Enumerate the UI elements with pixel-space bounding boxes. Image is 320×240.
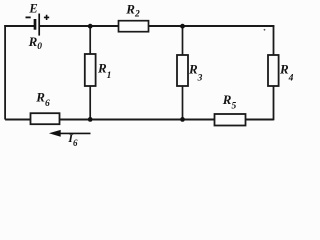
- wire top rail left segment: [4, 25, 34, 27]
- battery plus sign: [44, 15, 49, 20]
- svg-text:R4: R4: [279, 62, 294, 84]
- node junction dot bottom-right (x=182.5): [180, 117, 185, 122]
- node junction dot top-right (x=182.5): [180, 24, 185, 29]
- wire bottom rail left segment: [5, 119, 30, 121]
- svg-text:R5: R5: [222, 92, 237, 112]
- resistor R4 (box): [268, 55, 279, 86]
- battery E (source plates): [35, 14, 39, 36]
- svg-text:R0: R0: [28, 34, 43, 52]
- resistor R5 (box): [215, 114, 246, 126]
- resistor R1 (box): [85, 54, 96, 86]
- svg-text:R3: R3: [188, 61, 203, 83]
- current arrow I6 (pointing left): [49, 130, 91, 137]
- speck artifact near top right: [264, 29, 266, 31]
- wire branch B lower: [182, 86, 184, 120]
- svg-text:E: E: [28, 1, 37, 15]
- resistor R3 (box): [177, 55, 188, 86]
- wire right rail lower segment: [273, 86, 275, 121]
- wire bottom rail right segment: [245, 119, 274, 121]
- resistor R2 (box): [119, 21, 149, 32]
- wire branch A upper (node at top rail x=90): [89, 26, 91, 54]
- node junction dot bottom-left (x=90): [88, 117, 93, 122]
- wire top rail middle segment: [40, 25, 119, 27]
- battery minus sign: [26, 16, 31, 18]
- wire branch B upper (node at top rail x=182.5): [182, 26, 184, 55]
- svg-text:R2: R2: [125, 1, 140, 19]
- svg-text:R6: R6: [35, 89, 50, 109]
- resistor R6 (box): [31, 113, 60, 124]
- svg-text:R1: R1: [97, 61, 111, 82]
- node junction dot top-left (x=90): [88, 24, 93, 29]
- wire left rail: [4, 25, 6, 120]
- wire top rail right segment: [149, 25, 275, 27]
- wire branch A lower: [89, 86, 91, 120]
- wire bottom rail middle segment: [60, 119, 215, 121]
- wire right rail upper segment: [273, 25, 275, 55]
